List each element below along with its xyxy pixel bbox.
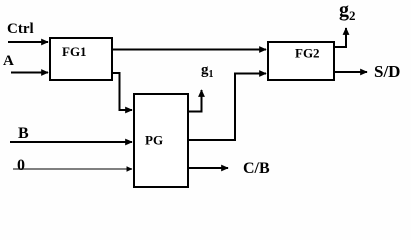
svg-text:FG2: FG2 — [295, 46, 320, 61]
svg-text:PG: PG — [145, 133, 163, 148]
svg-text:g2: g2 — [339, 0, 356, 23]
svg-text:g1: g1 — [201, 62, 214, 80]
svg-text:Ctrl: Ctrl — [7, 21, 34, 37]
svg-text:S/D: S/D — [374, 62, 400, 81]
svg-text:C/B: C/B — [243, 160, 270, 177]
svg-text:B: B — [18, 125, 29, 142]
svg-text:FG1: FG1 — [62, 44, 87, 59]
svg-text:0: 0 — [17, 157, 25, 174]
svg-text:A: A — [3, 53, 14, 69]
